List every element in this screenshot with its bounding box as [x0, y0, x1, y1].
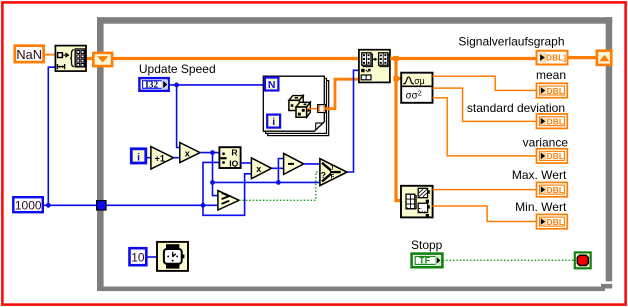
indicator Signalverlaufsgraph (DBL array) — [537, 51, 568, 65]
svg-text:standard deviation: standard deviation — [467, 101, 565, 115]
auto-indexing tunnel on for loop — [318, 105, 326, 113]
svg-text:+1: +1 — [155, 154, 165, 164]
svg-text:1000: 1000 — [15, 199, 42, 213]
junction feeding subtract upper input — [276, 180, 281, 185]
junction feeding select false input — [210, 180, 215, 185]
svg-text:DBL: DBL — [547, 186, 564, 195]
for loop (stacked pages with folded corner) — [263, 76, 328, 135]
svg-text:x: x — [185, 148, 190, 158]
wire: statistics std deviation output to indicator — [433, 88, 537, 121]
wire: NaN to Initialize Array (DBL scalar) — [44, 54, 56, 56]
svg-text:DBL]: DBL] — [546, 54, 566, 63]
svg-text:DBL: DBL — [547, 218, 564, 227]
array junction at statistics branch — [393, 76, 398, 81]
constant 10 — [130, 248, 147, 265]
wire: multiply2 output to subtract lower input — [272, 167, 284, 169]
left shift register — [93, 53, 112, 66]
wire: statistics mean output to mean indicator — [433, 76, 537, 90]
select function — [320, 159, 347, 186]
wire: increment to multiply lower input — [174, 157, 180, 159]
constant NaN — [15, 46, 44, 62]
Initialize Array function — [55, 46, 86, 72]
wire: Replace Array Subset output to trunk, indicator and down (DBL array) — [390, 59, 537, 201]
wire: select output up to Replace Array Subset index input — [347, 70, 359, 172]
while loop border — [97, 17, 612, 291]
svg-text:Signalverlaufsgraph: Signalverlaufsgraph — [458, 35, 564, 49]
right shift register — [597, 51, 611, 65]
wire: dice to auto-index tunnel — [307, 108, 318, 110]
wire: Stopp to loop condition terminal (boolean dotted) — [443, 259, 575, 261]
increment function +1 — [151, 147, 174, 169]
indicator mean (DBL) — [537, 83, 568, 97]
subtract function — [284, 153, 304, 174]
svg-text:NaN: NaN — [16, 47, 42, 62]
wire: branch up to subtract upper input — [278, 159, 283, 183]
wire: array max output to Max. Wert indicator — [433, 189, 537, 191]
for loop count terminal N — [265, 78, 279, 91]
control terminal I32 (Update Speed) — [139, 78, 168, 91]
svg-text:DBL: DBL — [547, 152, 564, 161]
junction on 1000 wire at x=203 — [201, 203, 206, 208]
wire: greater-equal result to select selector (boolean dotted) — [239, 172, 320, 200]
wire: horizontal to select false input — [213, 181, 321, 183]
wire: subtract output to select true input — [304, 163, 320, 165]
svg-text:Min. Wert: Min. Wert — [515, 200, 567, 214]
wire: branch up to quotient-remainder divisor input and down to multiply lower input — [203, 162, 252, 215]
wire: trunk branch to statistics function input (DBL array) — [396, 77, 401, 80]
loop condition terminal (stop button) — [575, 252, 591, 268]
junction on multiply output — [210, 150, 215, 155]
svg-text:TF: TF — [419, 256, 431, 266]
svg-text:variance: variance — [523, 136, 569, 150]
svg-text:T: T — [331, 166, 335, 172]
svg-text:i: i — [137, 151, 140, 163]
quotient-remainder function — [219, 147, 240, 168]
wire: branch up to Initialize Array dimension size input — [48, 67, 55, 205]
control terminal TF (Stopp) — [412, 254, 443, 268]
wire: Initialize Array through left shift register to Replace Array Subset (DBL array) — [86, 57, 359, 60]
while loop iteration terminal i — [131, 149, 146, 164]
wire: 1000 into loop to greater-equal lower input (I32) — [44, 204, 219, 206]
wire: 10 to wait ms — [147, 256, 157, 258]
indicator standard deviation (DBL) — [537, 114, 568, 128]
wire: statistics variance output to indicator — [433, 98, 537, 156]
svg-text:IQ: IQ — [229, 158, 238, 168]
svg-text:mean: mean — [536, 68, 566, 82]
statistics function (std deviation and variance) — [401, 73, 432, 103]
svg-text:N: N — [268, 79, 276, 91]
wire: array min output to Min. Wert indicator — [433, 206, 537, 222]
indicator variance (DBL) — [537, 149, 568, 163]
svg-text:Update Speed: Update Speed — [139, 62, 216, 76]
svg-text:DBL: DBL — [547, 87, 564, 96]
wire: I32 to for-loop N terminal and multiply upper input — [169, 85, 265, 148]
junction on 1000 wire feeding Initialize Array — [46, 203, 51, 208]
wire: multiply output to quotient-remainder — [200, 152, 219, 154]
svg-text:σμ: σμ — [414, 76, 425, 86]
Array Max and Min function — [401, 186, 433, 218]
svg-text:i: i — [272, 116, 275, 128]
wire: indicator to right shift register (DBL array) — [568, 56, 598, 59]
svg-text:Stopp: Stopp — [411, 238, 443, 252]
array junction at trunk top — [393, 56, 398, 61]
random number (dice) function — [289, 96, 310, 118]
indicator Min. Wert (DBL) — [537, 214, 568, 228]
svg-text:Max. Wert: Max. Wert — [512, 168, 567, 182]
multiply function 2 — [251, 158, 271, 179]
wait (ms) function — [157, 242, 188, 271]
Replace Array Subset function — [359, 50, 390, 83]
multiply function (speed * (i+1)) — [180, 143, 200, 163]
svg-text:DBL: DBL — [547, 118, 564, 127]
svg-text:F: F — [331, 174, 335, 180]
wire: i to increment — [146, 157, 151, 159]
wire: branch down to greater-equal upper input — [213, 153, 219, 196]
indicator Max. Wert (DBL) — [537, 182, 568, 196]
wire: quotient output to multiply2 upper input — [241, 162, 252, 164]
greater-or-equal function — [218, 191, 239, 210]
svg-text:I32: I32 — [145, 80, 158, 90]
tunnel: 1000 wire through while loop border — [97, 201, 106, 210]
svg-text:10: 10 — [131, 251, 145, 265]
wire: for loop tunnel to Replace Array Subset new-element input (DBL array) — [325, 79, 359, 108]
for loop iteration terminal i — [267, 115, 280, 128]
junction on I32 wire — [174, 83, 179, 88]
svg-text:x: x — [256, 164, 261, 174]
svg-text:R: R — [231, 147, 238, 157]
constant 1000 — [13, 197, 43, 212]
